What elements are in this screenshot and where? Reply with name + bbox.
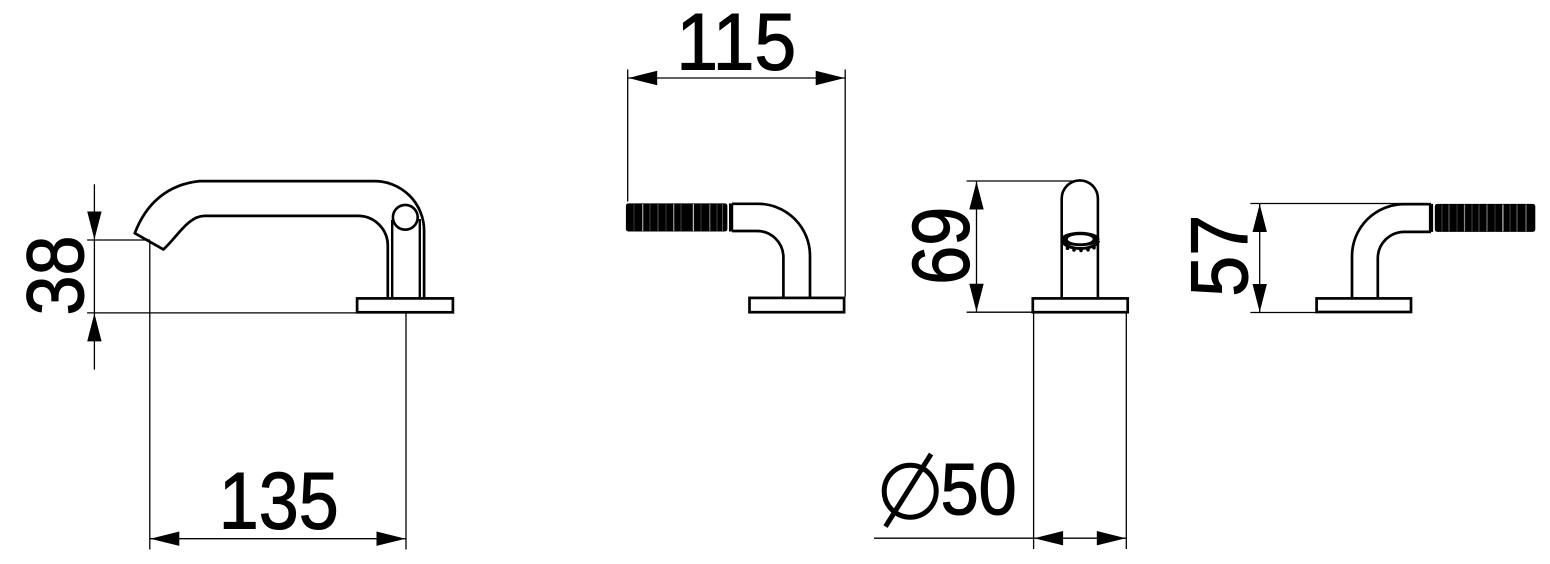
dimension text 38 — [11, 236, 101, 316]
dimension 38 vertical line — [93, 184, 95, 369]
dimension 57 bottom extension line — [1250, 312, 1319, 314]
spout outlet face — [135, 233, 164, 249]
svg-text:69: 69 — [897, 207, 987, 285]
dimension 50 left extension line — [1033, 313, 1035, 549]
dimension 38 bottom extension line — [87, 312, 357, 314]
spout pivot circle — [393, 205, 418, 230]
dimension 115 left arrow — [628, 71, 657, 85]
handle base plate — [750, 298, 845, 312]
dimension 115 line — [628, 77, 846, 79]
knurled ring — [1061, 232, 1100, 252]
handle knurled grip mirrored — [1429, 204, 1535, 232]
svg-text:57: 57 — [1175, 215, 1265, 297]
spout neck left line — [391, 220, 393, 297]
dimension 38 top arrow — [87, 212, 101, 240]
spout outer top edge and right side — [135, 181, 424, 297]
dimension 57 vertical line — [1259, 204, 1261, 313]
spout inner bottom edge — [163, 216, 387, 297]
dimension 50 right arrow — [1097, 531, 1126, 545]
diameter symbol — [884, 454, 936, 527]
dimension 57 top arrow — [1253, 204, 1267, 232]
dimension 69 top extension line — [967, 180, 1077, 182]
dimension 50 right extension line — [1125, 313, 1127, 549]
svg-text:50: 50 — [941, 450, 1017, 531]
dimension 69 bottom arrow — [969, 284, 983, 312]
dimension 50 left arrow — [1034, 531, 1063, 545]
dimension 135 left extension line — [149, 243, 151, 550]
dimension 115 left extension line — [627, 70, 629, 202]
dimension 135 right extension line — [405, 313, 407, 550]
dimension 69 bottom extension line — [967, 311, 1033, 313]
dimension 69 vertical line — [976, 181, 978, 312]
dimension text 57 — [1175, 215, 1265, 297]
dimension 69 top arrow — [969, 182, 983, 210]
svg-text:38: 38 — [11, 236, 101, 316]
spout base plate — [357, 298, 453, 312]
handle column outline — [1062, 180, 1098, 297]
dimension 135 right arrow — [377, 532, 406, 546]
handle knurled grip — [626, 203, 733, 231]
dimension 57 top extension line — [1250, 203, 1427, 205]
dimension 115 right extension line — [844, 70, 846, 297]
dimension 115 right arrow — [816, 71, 845, 85]
handle tube outline mirrored — [1352, 204, 1431, 297]
dimension 57 bottom arrow — [1253, 284, 1267, 312]
dimension 135 line — [150, 538, 406, 540]
handle front base plate — [1033, 298, 1128, 312]
dimension 38 bottom arrow — [87, 313, 101, 341]
dimension diameter 50 line — [874, 537, 1126, 539]
svg-text:135: 135 — [219, 457, 339, 547]
dimension 38 top extension line — [87, 239, 150, 241]
handle tube outline — [732, 204, 810, 297]
dimension text 69 — [897, 207, 987, 285]
spout neck right line — [419, 219, 421, 297]
dimension 135 left arrow — [150, 532, 179, 546]
svg-text:115: 115 — [676, 0, 796, 88]
handle base plate mirrored — [1317, 298, 1411, 312]
